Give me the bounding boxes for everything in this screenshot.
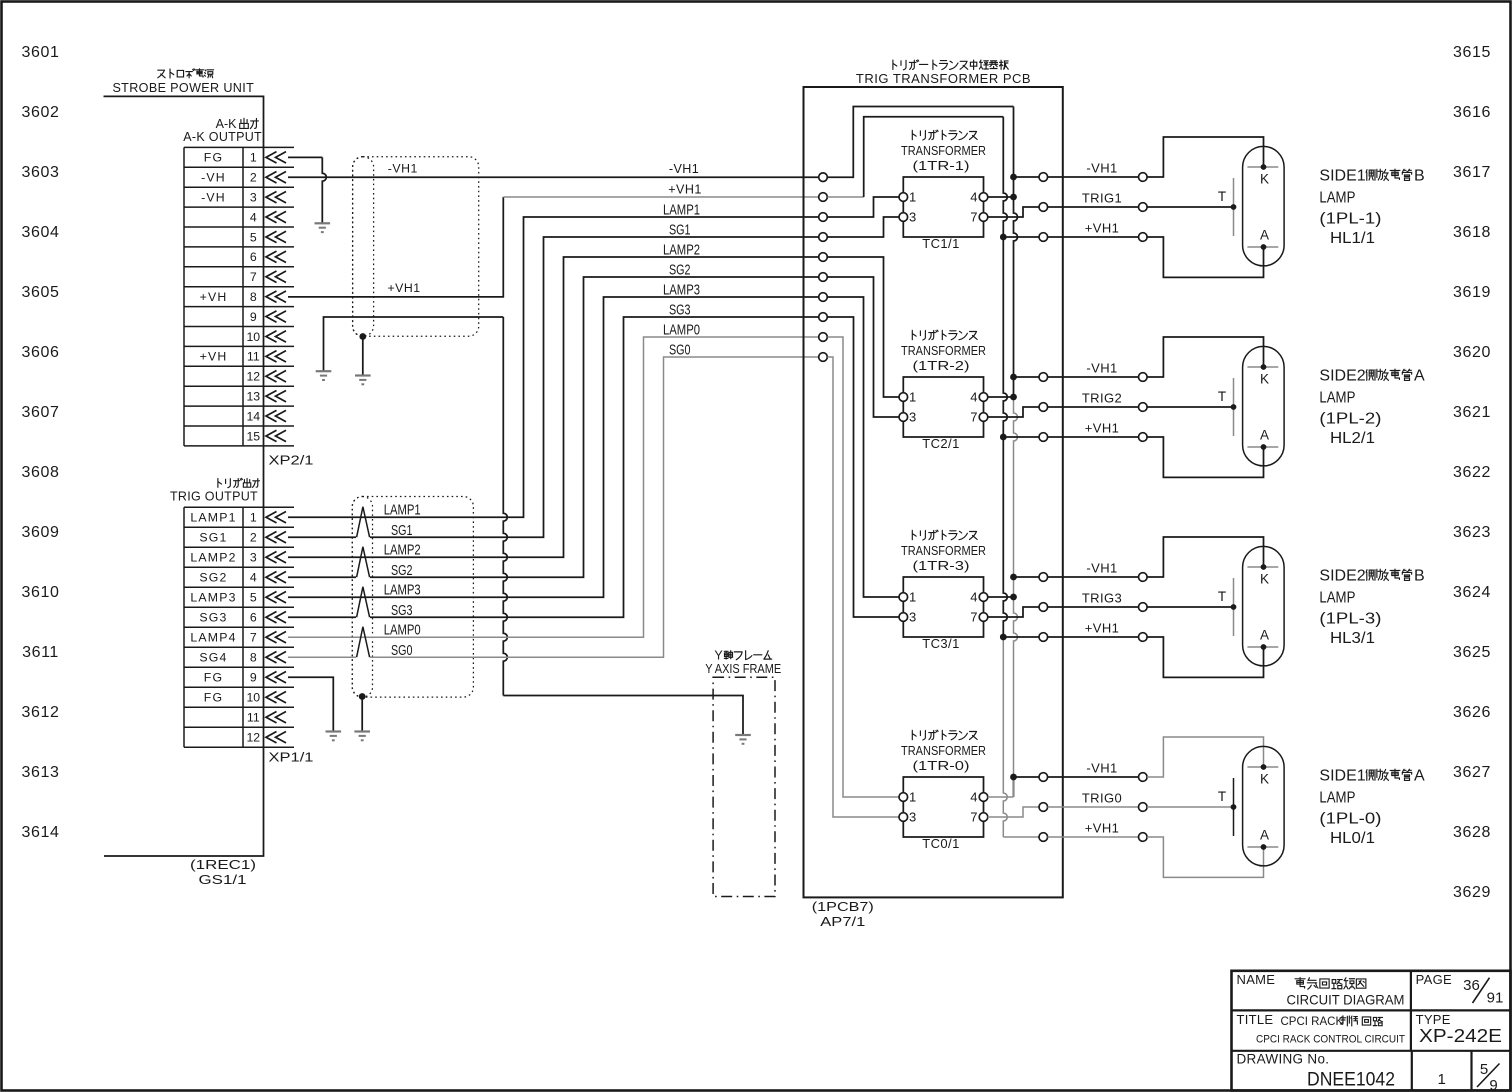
svg-text:SG1: SG1	[199, 531, 227, 545]
svg-text:13: 13	[246, 390, 260, 404]
wire lamp HL0/1 trigger	[1147, 806, 1234, 808]
svg-text:TC3/1: TC3/1	[922, 636, 959, 651]
svg-text:K: K	[1260, 172, 1269, 187]
svg-text:7: 7	[250, 631, 257, 645]
svg-text:Y AXIS FRAME: Y AXIS FRAME	[705, 662, 781, 676]
svg-text:LAMP2: LAMP2	[663, 243, 700, 259]
svg-text:3: 3	[909, 610, 916, 625]
svg-text:XP2/1: XP2/1	[269, 452, 314, 467]
svg-text:+VH1: +VH1	[1085, 821, 1119, 836]
svg-text:HL1/1: HL1/1	[1330, 230, 1375, 247]
svg-text:A: A	[1414, 768, 1425, 785]
junction anode HL0/1	[1261, 844, 1267, 850]
svg-text:TRANSFORMER: TRANSFORMER	[901, 143, 986, 158]
wire SG3 from XP1 pin6 to PCB	[288, 317, 819, 617]
flash lamp HL1/1 envelope	[1243, 146, 1285, 266]
svg-text:NAME: NAME	[1237, 972, 1276, 987]
title CPCI RACK (Japanese)	[1281, 1016, 1383, 1028]
svg-text:10: 10	[246, 330, 260, 344]
wire lamp HL3/1 cathode	[1147, 537, 1264, 577]
svg-text:CIRCUIT DIAGRAM: CIRCUIT DIAGRAM	[1287, 992, 1405, 1007]
junction trigger HL2/1	[1231, 404, 1237, 410]
wire XP2 pin1 FG to ground	[288, 156, 322, 158]
svg-text:TC0/1: TC0/1	[922, 836, 959, 851]
wire -VH1 to lamp HL1/1	[1048, 176, 1139, 178]
junction cathode HL0/1	[1261, 764, 1267, 770]
wire 1TR-1 pin7 to TRIG1	[988, 207, 1040, 217]
svg-text:A: A	[1260, 828, 1269, 843]
svg-text:14: 14	[246, 409, 260, 423]
svg-text:3610: 3610	[22, 584, 60, 601]
svg-text:CPCI RACK: CPCI RACK	[1281, 1016, 1344, 1028]
wire +VH1 riser to bus	[827, 117, 1003, 197]
ground (XP1 FG)	[326, 732, 342, 741]
svg-text:SG3: SG3	[669, 303, 691, 319]
svg-text:LAMP3: LAMP3	[663, 283, 700, 299]
cable shield around -VH1/+VH1 pair	[353, 157, 479, 337]
flash lamp HL2/1 envelope	[1243, 346, 1285, 466]
svg-text:3603: 3603	[22, 164, 60, 181]
svg-text:FG: FG	[204, 691, 223, 705]
svg-text:A-K: A-K	[216, 117, 238, 131]
wire lamp HL2/1 cathode	[1147, 337, 1264, 377]
trig transformer pcb heading (Japanese)	[893, 60, 1008, 70]
svg-text:3616: 3616	[1453, 104, 1491, 121]
junction anode HL3/1	[1261, 644, 1267, 650]
ground (XP2 FG)	[315, 223, 331, 232]
svg-text:5: 5	[1480, 1061, 1488, 1078]
junction +VH1 out 1TR-2	[1000, 434, 1007, 441]
wire lamp HL0/1 anode	[1147, 837, 1264, 877]
svg-text:3606: 3606	[22, 344, 60, 361]
svg-text:SIDE2: SIDE2	[1319, 568, 1365, 585]
lamp HL1/1 anode electrode	[1247, 246, 1278, 248]
svg-text:3607: 3607	[22, 404, 60, 421]
wire SG2 to 1TR-2 pin3	[827, 277, 899, 417]
junction cathode HL2/1	[1261, 364, 1267, 370]
svg-text:-VH1: -VH1	[388, 162, 418, 176]
drawing name (Japanese)	[1295, 978, 1366, 990]
transformer 1TR-1 pin circles	[899, 193, 988, 222]
svg-text:3617: 3617	[1453, 164, 1491, 181]
svg-text:HL3/1: HL3/1	[1330, 630, 1375, 647]
trig output heading (Japanese)	[218, 478, 260, 487]
flash lamp HL0/1 envelope	[1243, 746, 1285, 866]
wire lamp HL1/1 trigger	[1147, 206, 1234, 208]
svg-text:3: 3	[250, 551, 257, 565]
wire +VH1 out 1TR-1	[1003, 236, 1039, 238]
svg-text:3: 3	[250, 191, 257, 205]
svg-text:3611: 3611	[22, 644, 59, 661]
lamp HL3/1 terminals	[1139, 573, 1148, 642]
wire LAMP3 from XP1 pin5 to PCB	[288, 297, 819, 597]
svg-text:(1TR-1): (1TR-1)	[913, 158, 970, 173]
wire -VH1 out 1TR-1	[1014, 176, 1040, 178]
svg-text:LAMP: LAMP	[1319, 590, 1355, 607]
wire 1TR-0 pin7 to TRIG0	[988, 807, 1040, 817]
svg-text:4: 4	[970, 790, 977, 805]
wire SG2 from XP1 pin4 to PCB	[288, 277, 819, 577]
cable shield inner capsule	[353, 157, 374, 337]
svg-text:2: 2	[250, 531, 257, 545]
svg-text:15: 15	[246, 429, 260, 443]
svg-text:(1PL-3): (1PL-3)	[1319, 611, 1381, 628]
wire 1TR-0 pin4 bus stub	[1013, 777, 1015, 797]
wire TRIG0 to lamp HL0/1	[1048, 806, 1139, 808]
svg-text:1: 1	[909, 190, 916, 205]
svg-text:T: T	[1218, 589, 1226, 604]
lamp HL1/1 cathode electrode	[1247, 166, 1278, 168]
lamp HL3/1 description (side)	[1319, 568, 1424, 585]
transformer 1TR-0 body	[903, 777, 983, 837]
wire TRIG1 to lamp HL1/1	[1048, 206, 1139, 208]
transformer 1TR-3 heading (Japanese)	[912, 530, 977, 540]
svg-text:(1PCB7): (1PCB7)	[812, 899, 874, 914]
pcb AP7/1 block outline	[804, 87, 1063, 897]
wire lamp HL2/1 anode	[1147, 437, 1264, 477]
svg-text:+VH1: +VH1	[388, 281, 421, 295]
transformer 1TR-1 heading (Japanese)	[912, 130, 977, 140]
svg-text:B: B	[1414, 168, 1425, 185]
svg-text:SG0: SG0	[669, 343, 691, 359]
svg-text:SG2: SG2	[669, 263, 691, 279]
wire SG0 from XP1 pin8 to PCB	[288, 357, 819, 657]
svg-text:TRANSFORMER: TRANSFORMER	[901, 743, 986, 758]
svg-text:SG0: SG0	[391, 643, 413, 659]
lamp HL0/1 terminals	[1139, 773, 1148, 842]
ground (XP2 cable shield)	[355, 376, 371, 385]
twisted pair LAMP3/SG3	[356, 587, 370, 617]
pcb output pins 1TR-3	[1039, 573, 1048, 642]
svg-text:AP7/1: AP7/1	[820, 914, 865, 929]
svg-text:TRIG0: TRIG0	[1082, 791, 1122, 806]
junction -VH1/pin4 1TR-3	[1010, 594, 1017, 601]
svg-text:XP-242E: XP-242E	[1419, 1026, 1502, 1046]
twisted pair LAMP1/SG1	[356, 507, 370, 537]
svg-text:T: T	[1218, 389, 1226, 404]
wire LAMP2 from XP1 pin3 to PCB	[288, 257, 819, 557]
svg-text:1: 1	[909, 590, 916, 605]
svg-text:8: 8	[250, 651, 257, 665]
lamp HL2/1 trigger electrode	[1233, 378, 1235, 436]
svg-text:XP1/1: XP1/1	[269, 750, 314, 765]
wire +VH1 out 1TR-2	[1003, 436, 1039, 438]
svg-text:3620: 3620	[1453, 344, 1491, 361]
Y axis frame boundary	[713, 677, 775, 896]
svg-text:(1PL-1): (1PL-1)	[1319, 211, 1381, 228]
svg-text:3629: 3629	[1453, 884, 1491, 901]
svg-text:1: 1	[1438, 1071, 1446, 1088]
svg-text:(1TR-2): (1TR-2)	[913, 358, 970, 373]
wire -VH1 riser to bus	[827, 107, 1013, 178]
svg-text:Y: Y	[714, 649, 723, 663]
junction trigger HL0/1	[1231, 804, 1237, 810]
wire +VH1 to lamp HL3/1	[1048, 636, 1139, 638]
wire +VH1 to lamp HL0/1	[1048, 836, 1139, 838]
wire +VH1 from XP2 pin8	[288, 197, 819, 297]
wire SG1 from XP1 pin2 to PCB	[288, 237, 819, 537]
svg-text:3627: 3627	[1453, 764, 1491, 781]
svg-text:A: A	[1414, 368, 1425, 385]
lamp HL2/1 anode electrode	[1247, 446, 1278, 448]
wire frame-ground link	[324, 317, 504, 371]
svg-text:3625: 3625	[1453, 644, 1491, 661]
svg-text:A-K OUTPUT: A-K OUTPUT	[183, 130, 262, 144]
wire -VH1 to lamp HL3/1	[1048, 576, 1139, 578]
svg-text:HL0/1: HL0/1	[1330, 830, 1375, 847]
svg-text:91: 91	[1487, 990, 1504, 1007]
transformer 1TR-3 pin circles	[899, 593, 988, 622]
pcb output pins 1TR-0	[1039, 773, 1048, 842]
svg-text:K: K	[1260, 572, 1269, 587]
svg-text:1: 1	[909, 790, 916, 805]
svg-text:-VH: -VH	[201, 171, 226, 185]
junction +VH1 out 1TR-1	[1000, 234, 1007, 241]
sheet 5/9	[1477, 1061, 1500, 1092]
wire shield drain to ground (trig)	[361, 697, 363, 732]
bus -VH1 vertical	[1014, 107, 1018, 798]
junction -VH1/pin4 1TR-0	[1010, 774, 1017, 781]
wire lamp HL3/1 trigger	[1147, 606, 1234, 608]
lamp HL0/1 trigger electrode	[1233, 778, 1235, 836]
svg-text:3619: 3619	[1453, 284, 1491, 301]
svg-text:+VH: +VH	[200, 290, 228, 304]
wire TRIG2 to lamp HL2/1	[1048, 406, 1139, 408]
lamp HL0/1 anode electrode	[1247, 846, 1278, 848]
svg-text:-VH1: -VH1	[1086, 761, 1117, 776]
svg-text:3626: 3626	[1453, 704, 1491, 721]
svg-text:TRIG1: TRIG1	[1082, 191, 1122, 206]
junction -VH1/pin4 1TR-2	[1010, 394, 1017, 401]
svg-text:SIDE1: SIDE1	[1319, 168, 1365, 185]
svg-text:STROBE POWER UNIT: STROBE POWER UNIT	[112, 81, 254, 95]
svg-text:K: K	[1260, 372, 1269, 387]
wire frame-ground link to Y axis frame	[503, 696, 743, 735]
svg-text:36: 36	[1463, 977, 1480, 994]
transformer 1TR-0 pin circles	[899, 793, 988, 822]
ground (XP1 cable shield)	[354, 732, 370, 741]
svg-text:+VH1: +VH1	[1085, 621, 1119, 636]
svg-text:TITLE: TITLE	[1237, 1012, 1274, 1027]
wire lamp HL2/1 trigger	[1147, 406, 1234, 408]
wire LAMP3 to 1TR-3 pin1	[827, 297, 899, 597]
svg-text:3604: 3604	[22, 224, 60, 241]
svg-text:-VH1: -VH1	[1086, 361, 1117, 376]
wire 1TR-1 pin4 to -VH1 bus	[988, 196, 1014, 198]
svg-text:(1TR-3): (1TR-3)	[913, 558, 970, 573]
wire -VH1 out 1TR-2	[1014, 376, 1040, 378]
svg-text:(1TR-0): (1TR-0)	[913, 758, 970, 773]
lamp HL1/1 trigger electrode	[1233, 178, 1235, 236]
svg-text:9: 9	[1489, 1077, 1497, 1092]
junction trigger HL1/1	[1231, 204, 1237, 210]
wire 1TR-3 pin7 to TRIG3	[988, 607, 1040, 617]
svg-text:3: 3	[909, 210, 916, 225]
svg-text:7: 7	[970, 210, 977, 225]
svg-text:LAMP2: LAMP2	[384, 543, 421, 559]
svg-text:A: A	[1260, 628, 1269, 643]
wire +VH1 to lamp HL1/1	[1048, 236, 1139, 238]
svg-text:3613: 3613	[22, 764, 60, 781]
svg-text:SG3: SG3	[391, 603, 413, 619]
svg-text:3: 3	[909, 810, 916, 825]
svg-text:8: 8	[250, 290, 257, 304]
svg-text:3621: 3621	[1453, 404, 1491, 421]
svg-text:LAMP3: LAMP3	[190, 591, 236, 605]
svg-text:12: 12	[246, 370, 260, 384]
wire -VH1 to lamp HL0/1	[1048, 776, 1139, 778]
svg-text:3624: 3624	[1453, 584, 1491, 601]
page number 36/91	[1463, 977, 1503, 1006]
svg-text:TRIG TRANSFORMER PCB: TRIG TRANSFORMER PCB	[856, 71, 1031, 86]
svg-text:LAMP2: LAMP2	[190, 551, 236, 565]
ground (frame link, left)	[316, 371, 332, 380]
junction anode HL1/1	[1261, 244, 1267, 250]
wire 1TR-2 pin7 to TRIG2	[988, 407, 1040, 417]
svg-text:SG3: SG3	[199, 611, 227, 625]
ground (Y axis frame)	[735, 735, 751, 744]
svg-text:10: 10	[246, 691, 260, 705]
svg-text:A: A	[1260, 228, 1269, 243]
flash lamp HL3/1 envelope	[1243, 546, 1285, 666]
svg-text:TC1/1: TC1/1	[922, 236, 959, 251]
svg-text:TRANSFORMER: TRANSFORMER	[901, 543, 986, 558]
wire lamp HL1/1 anode	[1147, 237, 1264, 277]
svg-text:T: T	[1218, 189, 1226, 204]
svg-text:FG: FG	[204, 671, 223, 685]
svg-text:FG: FG	[204, 151, 223, 165]
transformer 1TR-2 body	[903, 377, 983, 437]
junction -VH1 out 1TR-2	[1010, 374, 1017, 381]
svg-text:TRIG OUTPUT: TRIG OUTPUT	[170, 490, 258, 504]
wire TRIG3 to lamp HL3/1	[1048, 606, 1139, 608]
svg-text:LAMP0: LAMP0	[663, 323, 700, 339]
cable shield around trigger pairs	[352, 497, 473, 698]
svg-text:3623: 3623	[1453, 524, 1491, 541]
junction anode HL2/1	[1261, 444, 1267, 450]
svg-text:4: 4	[970, 590, 977, 605]
svg-text:(1PL-0): (1PL-0)	[1319, 811, 1381, 828]
svg-text:HL2/1: HL2/1	[1330, 430, 1375, 447]
svg-text:LAMP1: LAMP1	[663, 203, 700, 219]
transformer 1TR-1 body	[903, 177, 983, 237]
svg-text:7: 7	[970, 610, 977, 625]
junction cathode HL1/1	[1261, 164, 1267, 170]
junction cathode HL3/1	[1261, 564, 1267, 570]
svg-text:7: 7	[970, 810, 977, 825]
junction -VH1/pin4 1TR-1	[1010, 194, 1017, 201]
wire XP1 pin9 FG	[288, 677, 333, 731]
Y axis frame label (Japanese)	[714, 649, 771, 663]
junction shield drain (trig)	[359, 693, 366, 700]
svg-text:SG2: SG2	[391, 563, 413, 579]
strobe power unit label (Japanese)	[158, 69, 214, 78]
svg-text:11: 11	[247, 350, 260, 364]
A-K output heading (Japanese)	[216, 117, 259, 131]
svg-text:DRAWING No.: DRAWING No.	[1237, 1052, 1330, 1067]
svg-text:(1PL-2): (1PL-2)	[1319, 411, 1381, 428]
svg-text:9: 9	[250, 671, 257, 685]
svg-text:5: 5	[250, 230, 257, 244]
svg-text:LAMP3: LAMP3	[384, 583, 421, 599]
twisted pair LAMP0/SG0	[356, 627, 370, 657]
svg-text:3614: 3614	[22, 824, 60, 841]
svg-text:LAMP: LAMP	[1319, 390, 1355, 407]
wire LAMP1 to 1TR-1 pin1	[827, 197, 899, 217]
svg-text:6: 6	[250, 611, 257, 625]
wire LAMP1 from XP1 pin1 to PCB	[288, 217, 819, 517]
wire LAMP0 from XP1 pin7 to PCB	[288, 337, 819, 637]
twisted pair LAMP2/SG2	[356, 547, 370, 577]
lamp HL2/1 description (side)	[1319, 368, 1425, 385]
svg-text:T: T	[1218, 789, 1226, 804]
svg-text:11: 11	[247, 711, 260, 725]
wire SG1 to 1TR-1 pin3	[827, 217, 899, 237]
title block frame	[1232, 971, 1511, 1091]
junction -VH1 out 1TR-1	[1010, 174, 1017, 181]
wire 1TR-0 pin4 to -VH1 bus	[988, 796, 1014, 798]
svg-text:TRIG2: TRIG2	[1082, 391, 1122, 406]
svg-text:3601: 3601	[22, 44, 60, 61]
wire LAMP0 to 1TR-0 pin1	[827, 337, 899, 797]
svg-text:SG2: SG2	[199, 571, 227, 585]
cable shield inner capsule (trig)	[352, 497, 372, 698]
transformer 1TR-2 pin circles	[899, 393, 988, 422]
pcb output pins 1TR-1	[1039, 173, 1048, 242]
junction +VH1 out 1TR-3	[1000, 634, 1007, 641]
svg-text:LAMP4: LAMP4	[190, 631, 236, 645]
connector XP2/1 plug contacts	[266, 152, 286, 442]
svg-text:LAMP0: LAMP0	[384, 623, 421, 639]
svg-text:4: 4	[250, 210, 257, 224]
svg-text:TYPE: TYPE	[1416, 1012, 1451, 1027]
svg-text:12: 12	[246, 731, 260, 745]
svg-text:LAMP: LAMP	[1319, 790, 1355, 807]
wire +VH1 out 1TR-3	[1003, 636, 1039, 638]
svg-text:7: 7	[250, 270, 257, 284]
wire frame-ground link vertical	[503, 317, 507, 696]
svg-text:DNEE1042: DNEE1042	[1307, 1070, 1395, 1091]
svg-text:K: K	[1260, 772, 1269, 787]
svg-text:SIDE2: SIDE2	[1319, 368, 1365, 385]
lamp HL3/1 anode electrode	[1247, 646, 1278, 648]
svg-text:TRIG3: TRIG3	[1082, 591, 1122, 606]
connector XP1/1 plug contacts	[266, 512, 286, 743]
wire 1TR-2 pin4 to -VH1 bus	[988, 396, 1014, 398]
svg-text:4: 4	[970, 190, 977, 205]
strobe power unit GS1/1 block outline	[104, 96, 264, 856]
svg-text:SG1: SG1	[391, 523, 413, 539]
svg-text:+VH1: +VH1	[668, 182, 701, 196]
svg-text:TRANSFORMER: TRANSFORMER	[901, 343, 986, 358]
svg-text:3: 3	[909, 410, 916, 425]
svg-text:+VH: +VH	[200, 350, 228, 364]
svg-text:3622: 3622	[1453, 464, 1491, 481]
wire -VH1 out 1TR-0	[1014, 776, 1040, 778]
svg-text:-VH1: -VH1	[1086, 561, 1117, 576]
svg-text:SIDE1: SIDE1	[1319, 768, 1365, 785]
lamp HL2/1 terminals	[1139, 373, 1148, 442]
svg-text:3605: 3605	[22, 284, 60, 301]
lamp HL1/1 description (side)	[1319, 168, 1424, 185]
svg-text:-VH1: -VH1	[1086, 161, 1117, 176]
svg-text:-VH1: -VH1	[669, 162, 699, 176]
svg-text:2: 2	[250, 171, 257, 185]
connector XP1/1 (trig output, pins 1-12)	[184, 507, 294, 747]
wire SG3 to 1TR-3 pin3	[827, 317, 899, 617]
svg-text:3618: 3618	[1453, 224, 1491, 241]
wire shield drain to ground	[362, 337, 364, 376]
